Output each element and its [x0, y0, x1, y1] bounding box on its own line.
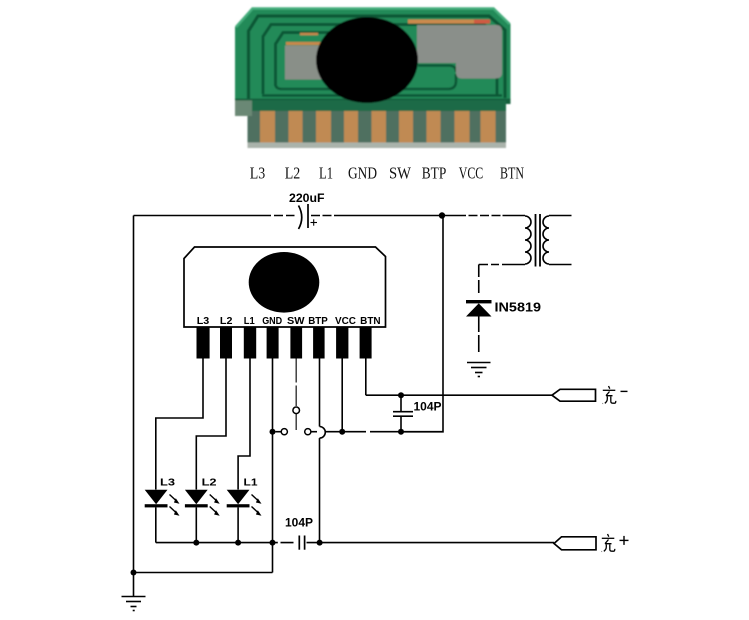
label charge-plus glyph [602, 534, 615, 552]
wire top rail right [311, 215, 525, 217]
U1 pin 5 pad [290, 327, 302, 359]
PCB copper trace upper right [408, 20, 490, 24]
transformer T1 core [536, 214, 541, 267]
label charge-minus sign [621, 390, 628, 392]
svg-text:SW: SW [287, 316, 305, 327]
LED L3 [145, 490, 180, 543]
LED L2 [185, 490, 220, 543]
U1 pin 8 pad [360, 327, 372, 359]
switch SW1 contact left [281, 429, 287, 435]
wire top rail left [134, 215, 295, 217]
wire pin BTP lower [319, 438, 321, 542]
pin name row [250, 164, 524, 183]
svg-text:L2: L2 [220, 316, 233, 327]
wire GND to left rail bottom [134, 572, 273, 574]
U1 pin 2 pad [220, 327, 232, 359]
svg-text:L1: L1 [244, 477, 258, 489]
svg-text:GND: GND [348, 164, 377, 183]
U1 pin 7 pad [336, 327, 348, 359]
U1 pin 6 pad [313, 327, 325, 359]
capacitor C1 220uF curved plate [299, 206, 302, 230]
node GND rail junction dot [270, 540, 276, 546]
svg-text:220uF: 220uF [289, 193, 325, 205]
svg-text:BTN: BTN [500, 164, 524, 183]
PCB copper trace stub [300, 33, 318, 36]
node C3 top junction dot [398, 392, 404, 398]
svg-text:GND: GND [262, 316, 282, 327]
svg-text:L3: L3 [250, 164, 266, 183]
U1 pin 3 pad [244, 327, 256, 359]
capacitor C2 104P plates [299, 536, 304, 550]
svg-text:SW: SW [389, 164, 411, 183]
wire pin L2 to LED L2 [196, 359, 226, 490]
wire diode top lead [478, 265, 480, 294]
wire node A vertical drop [401, 216, 443, 432]
U1 pin 1 pad [197, 327, 210, 359]
wire hop BTP over switch row [320, 427, 326, 439]
svg-text:104P: 104P [285, 518, 313, 530]
node A junction dot [439, 212, 445, 218]
label charge-minus glyph [603, 386, 616, 404]
capacitor C1 polarity plus [311, 219, 318, 225]
wire diode bottom lead [478, 317, 480, 353]
wire ground lead [133, 573, 135, 597]
svg-text:L3: L3 [160, 477, 175, 489]
switch SW1 actuator circle [293, 407, 300, 414]
PCB chip blob [316, 17, 418, 103]
wire pin BTP upper [319, 359, 321, 427]
svg-text:BTN: BTN [360, 316, 381, 327]
PCB tinned inner region left [285, 46, 332, 80]
wire transformer primary bottom to diode [479, 264, 525, 266]
svg-text:L1: L1 [319, 164, 333, 183]
svg-text:L1: L1 [244, 316, 255, 327]
wire bottom rail [156, 542, 554, 544]
ground symbol under diode [467, 363, 491, 377]
wire pin L3 to LED L3 [156, 359, 203, 490]
LED L1 [227, 490, 262, 543]
node BTP rail junction dot [317, 540, 323, 546]
PCB copper trace red segment [474, 20, 490, 24]
PCB tinned inner region right [417, 25, 502, 79]
wire switch row segments [276, 431, 444, 433]
ground symbol main [122, 597, 146, 611]
PCB gold fingers connector [235, 101, 506, 149]
svg-text:VCC: VCC [459, 164, 484, 183]
U1 chip blob [249, 252, 320, 313]
diode D1 cathode bar [466, 300, 492, 303]
wire transformer secondary top stub [549, 215, 572, 217]
node ground junction dot [131, 570, 137, 576]
node LED L2 junction dot [193, 540, 199, 546]
svg-text:L2: L2 [202, 477, 217, 489]
transformer T1 secondary winding [543, 216, 549, 264]
svg-text:104P: 104P [414, 401, 442, 413]
charge-plus terminal [554, 537, 596, 550]
diode D1 triangle [466, 303, 492, 316]
wire pin L1 to LED L1 [238, 359, 250, 490]
node switch row left junction dot [270, 429, 276, 435]
U1 pin 4 pad [267, 327, 279, 359]
transformer T1 primary winding [525, 216, 531, 264]
wire pin GND down [272, 359, 274, 573]
svg-text:VCC: VCC [335, 316, 356, 327]
wire pin BTN down [365, 359, 367, 396]
svg-text:L3: L3 [197, 316, 210, 327]
wire pin VCC down [341, 359, 343, 432]
capacitor C1 220uF straight plate [307, 204, 309, 228]
svg-text:L2: L2 [285, 164, 301, 183]
svg-text:BTP: BTP [308, 316, 328, 327]
node C3 bottom junction dot [398, 429, 404, 435]
PCB copper trace left [286, 42, 336, 45]
svg-text:BTP: BTP [422, 164, 447, 183]
capacitor C3 leads [400, 395, 402, 432]
node VCC switch row junction dot [339, 429, 345, 435]
op-amp U1 module outline [184, 247, 386, 327]
switch SW1 contact right [305, 429, 311, 435]
wire transformer secondary bottom stub [549, 264, 572, 266]
PCB module photo [235, 8, 511, 105]
capacitor C3 104P plates [393, 412, 413, 417]
svg-text:IN5819: IN5819 [495, 300, 542, 315]
node LED L1 junction dot [235, 540, 241, 546]
wire left rail [133, 216, 135, 573]
wire BTN to charge-minus terminal [366, 394, 552, 396]
charge-minus terminal [552, 389, 596, 401]
switch SW1 actuator dashed link [295, 359, 297, 431]
label charge-plus sign [620, 536, 629, 545]
